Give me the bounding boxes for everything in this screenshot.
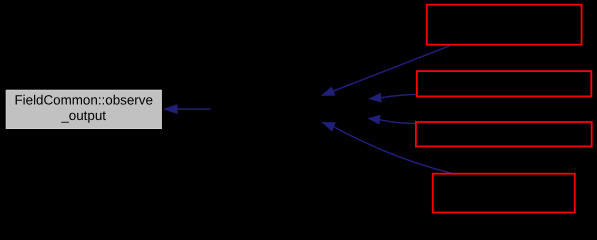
wire: edge from caller box B4 (bottom) [334,127,454,174]
svg-text:FieldCommon::observe: FieldCommon::observe [14,92,152,107]
arrowhead B2 [368,93,381,103]
wire: edge from caller box B2 [381,94,416,97]
node FieldCommon::observe_output (grey current node) [6,90,161,128]
caller node box B1 (red, top) [427,5,582,45]
caller node box B3 (red) [416,122,592,146]
arrowhead B3 [367,115,380,125]
wire: edge from caller box B1 (top) [334,46,450,91]
caller node box B4 (red, bottom) [433,174,575,213]
wire: edge from hidden middle node to FieldCommon::observe_output [178,108,211,110]
svg-text:_output: _output [60,108,106,123]
wire: edge from caller box B3 [380,120,416,124]
arrowhead into FieldCommon::observe_output [163,104,178,114]
caller node box B2 (red) [417,71,591,96]
arrowhead B1 [321,86,335,96]
arrowhead B4 [321,122,335,132]
